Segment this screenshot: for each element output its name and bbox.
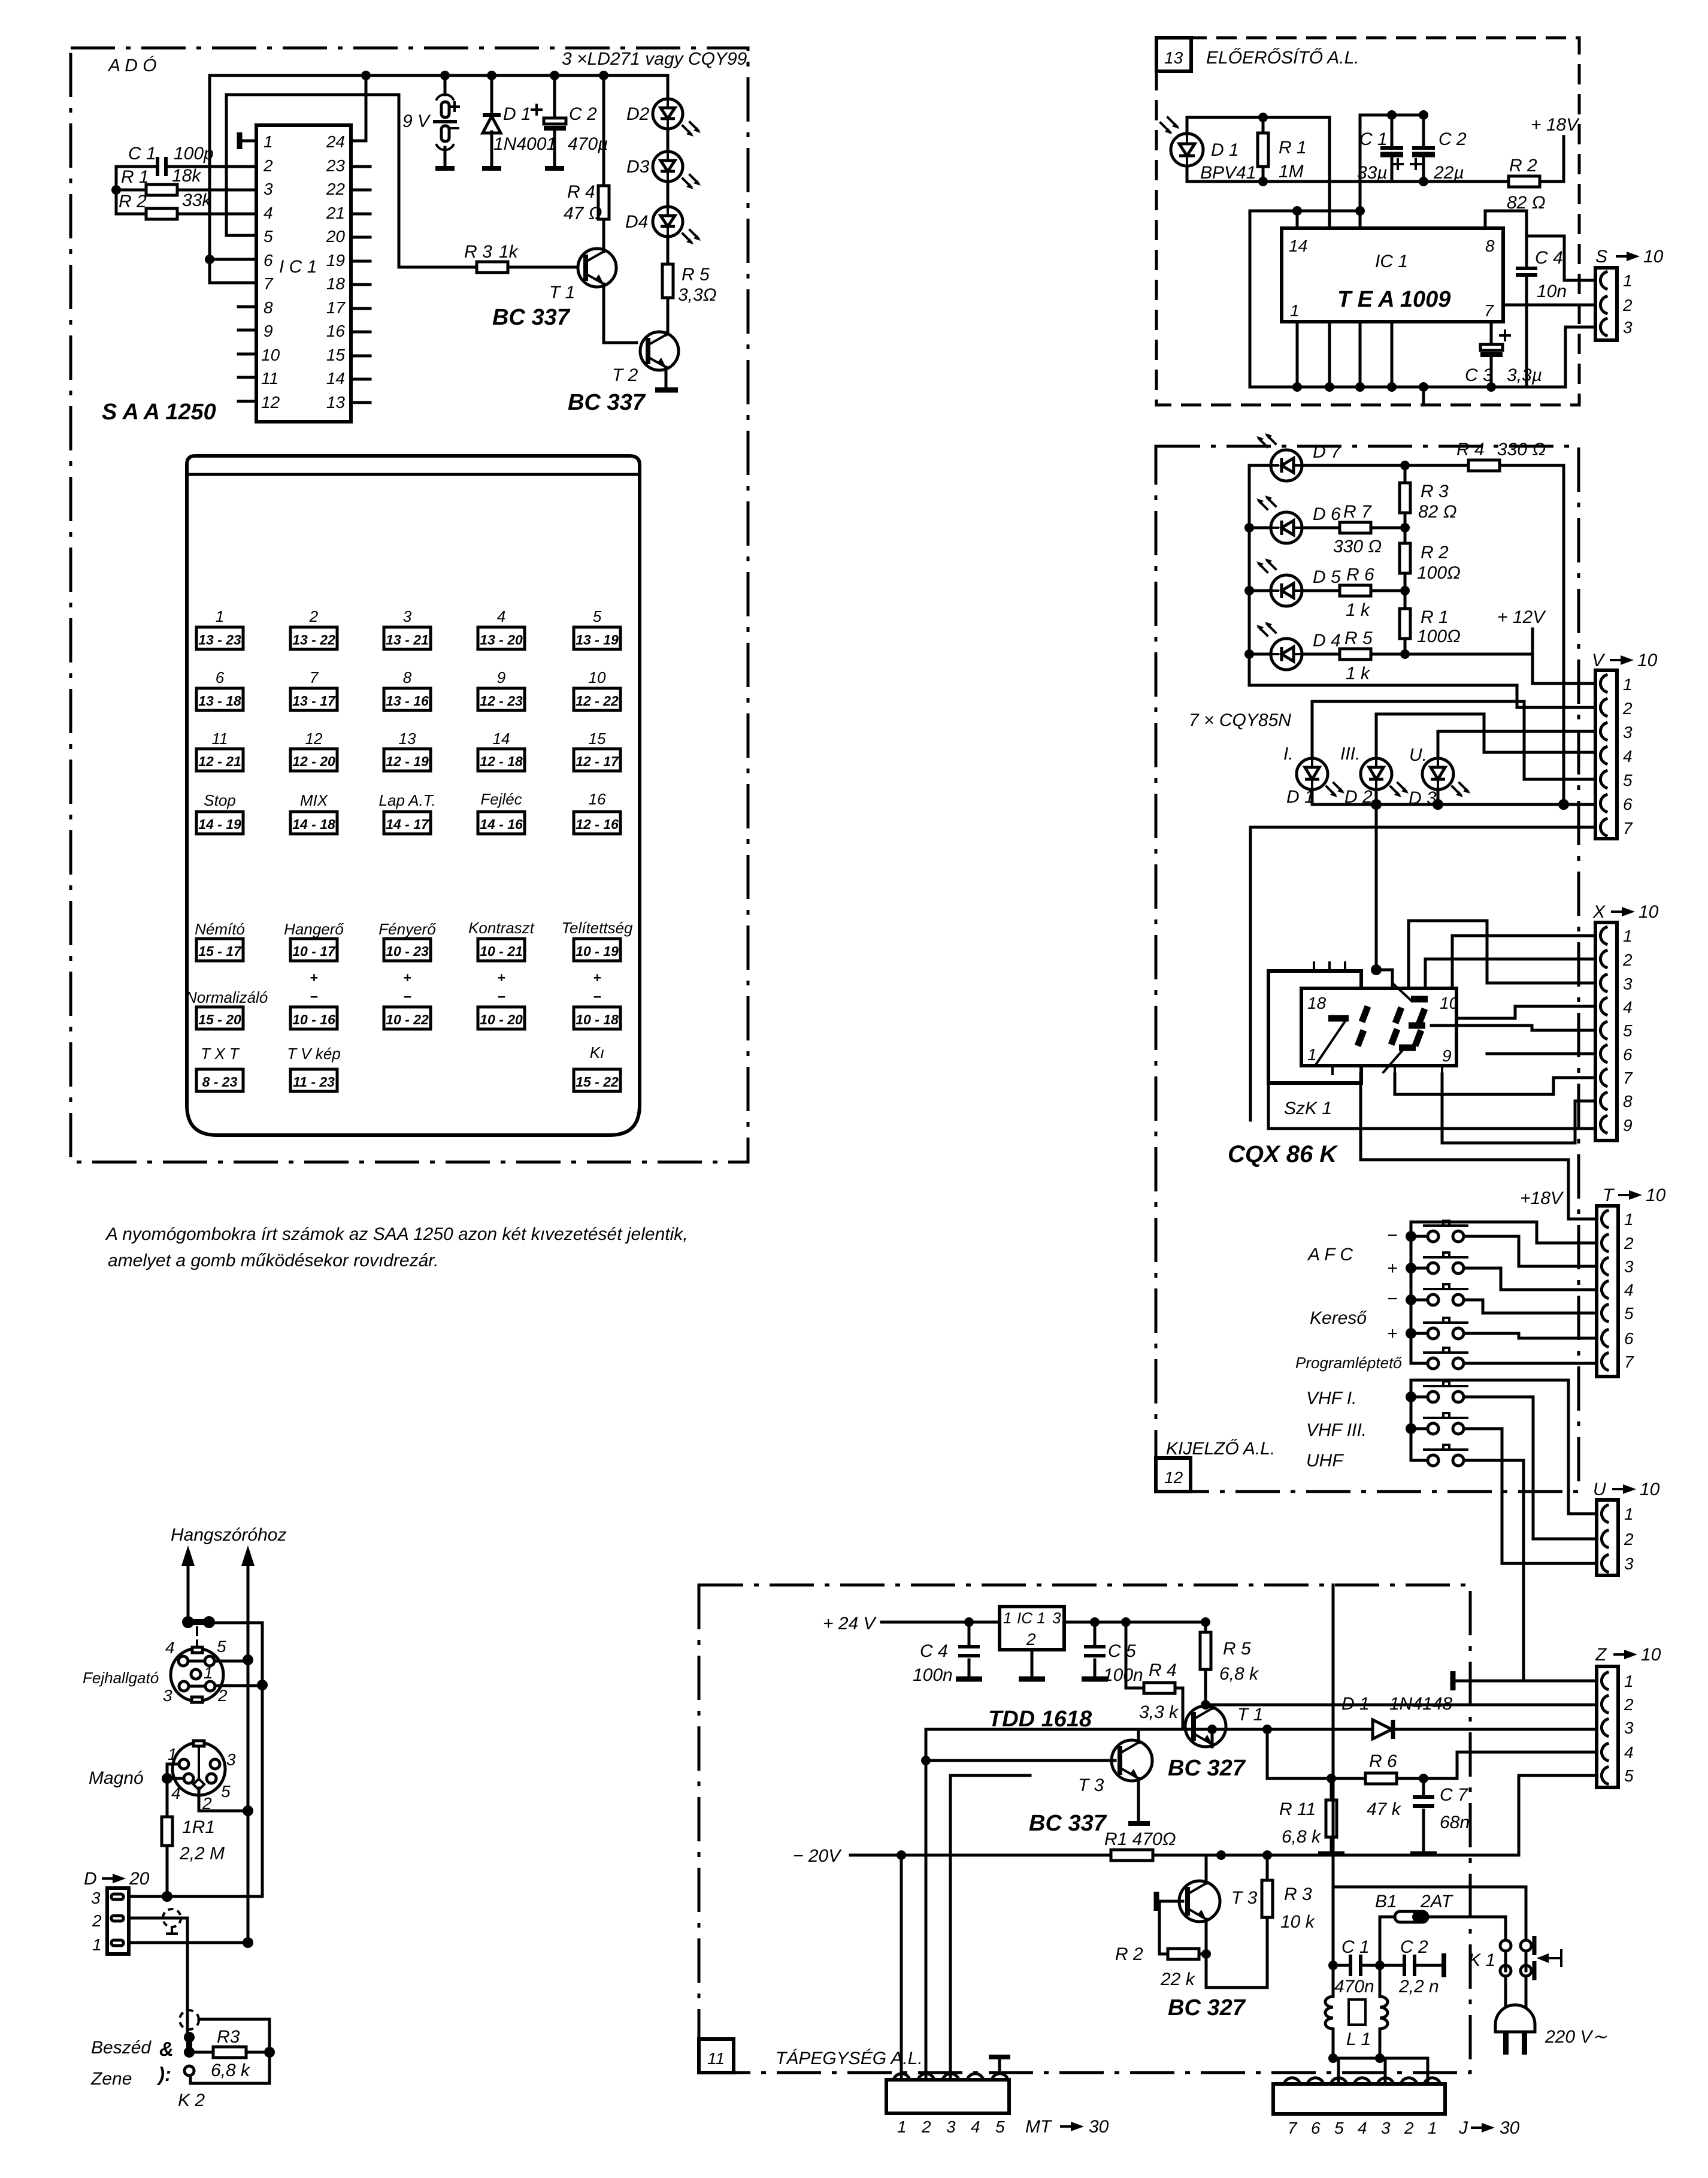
svg-text:5: 5 <box>995 2117 1005 2136</box>
resistor R3 6,8k <box>195 2051 269 2054</box>
buttons left rail 1 <box>1411 1222 1595 1363</box>
resistor R4 330ohm <box>1468 460 1500 471</box>
svg-text:5: 5 <box>264 227 273 246</box>
svg-text:12 - 19: 12 - 19 <box>386 754 429 769</box>
svg-text:14 - 19: 14 - 19 <box>198 816 241 832</box>
ground under T2 <box>655 388 678 393</box>
mains plug <box>1495 2005 1535 2032</box>
resistor R3 10k vertical <box>1262 1880 1273 1917</box>
svg-text:R 2: R 2 <box>1509 156 1537 176</box>
svg-text:10: 10 <box>1646 1185 1666 1205</box>
band LED D1 <box>1283 701 1595 807</box>
svg-text:23: 23 <box>326 156 346 175</box>
Z1 terminal bar <box>1453 1680 1597 1683</box>
svg-text:1k: 1k <box>499 242 519 262</box>
connector V-10 <box>1592 651 1658 839</box>
svg-text:I.: I. <box>1283 744 1294 764</box>
svg-text:17: 17 <box>326 298 346 317</box>
svg-text:4: 4 <box>171 1784 181 1802</box>
connector S-10 <box>1595 247 1664 340</box>
svg-text:12 - 18: 12 - 18 <box>480 754 523 769</box>
wire SzK1 to X1 <box>1452 936 1595 987</box>
svg-text:+: + <box>1387 1259 1398 1278</box>
svg-text:6,8 k: 6,8 k <box>1282 1827 1322 1847</box>
svg-text:100n: 100n <box>913 1665 953 1685</box>
svg-text:T 1: T 1 <box>549 283 575 302</box>
svg-text:8 - 23: 8 - 23 <box>202 1074 238 1090</box>
push button UHF <box>1411 1445 1595 1681</box>
connector U-10 <box>1593 1480 1660 1575</box>
svg-text:3: 3 <box>1624 1719 1634 1737</box>
svg-text:R 1: R 1 <box>1421 607 1449 627</box>
capacitor C2 2,2n <box>1380 1964 1444 1967</box>
connector X-10 <box>1592 902 1659 1141</box>
svg-text:+ 24 V: + 24 V <box>823 1614 877 1633</box>
svg-text:5: 5 <box>1334 2119 1344 2137</box>
svg-text:2: 2 <box>1624 1234 1634 1253</box>
keypad top inner line <box>187 473 640 476</box>
wire IC pin7 to S2 <box>1503 304 1595 307</box>
svg-text:A F C: A F C <box>1307 1245 1353 1265</box>
wire SzK1 to X2 <box>1425 959 1595 988</box>
svg-text:2: 2 <box>1026 1630 1036 1648</box>
diode D1 1N4001 <box>490 75 493 168</box>
svg-text:3: 3 <box>1052 1609 1061 1627</box>
wire D20 pin1 <box>129 1941 248 1944</box>
resistor R5 6,8k vertical <box>1200 1632 1211 1669</box>
block 12 number box <box>1156 1458 1191 1492</box>
svg-text:22µ: 22µ <box>1433 163 1464 183</box>
block 13 dashed border <box>1156 38 1579 405</box>
svg-text:1: 1 <box>92 1935 102 1954</box>
svg-text:U.: U. <box>1409 745 1427 765</box>
svg-text:D2: D2 <box>626 104 650 124</box>
svg-text:4: 4 <box>1624 1281 1634 1299</box>
transformer L1 <box>1333 1965 1380 1996</box>
svg-text:18: 18 <box>1307 994 1327 1012</box>
svg-text:R 4: R 4 <box>567 182 595 202</box>
svg-text:BC 337: BC 337 <box>1029 1811 1107 1836</box>
svg-text:3,3Ω: 3,3Ω <box>678 285 717 305</box>
svg-text:4: 4 <box>1624 1743 1634 1762</box>
svg-text:19: 19 <box>326 251 345 270</box>
svg-text:R 2: R 2 <box>1421 543 1449 562</box>
svg-text:2: 2 <box>1622 699 1633 718</box>
push button Kereso minus <box>1387 1284 1595 1313</box>
svg-text:3: 3 <box>403 607 412 625</box>
svg-text:D 5: D 5 <box>1313 567 1341 587</box>
wire from second bus down to R3 <box>399 95 477 267</box>
capacitor C2 470u electrolytic <box>553 75 556 168</box>
band LED D3 <box>1409 731 1595 808</box>
svg-text:D 1: D 1 <box>503 104 531 124</box>
svg-text:R 2: R 2 <box>1115 1944 1143 1964</box>
+18V vertical to V6 <box>1562 465 1565 804</box>
IC1 pin numbers left <box>261 132 280 412</box>
svg-text:VHF III.: VHF III. <box>1306 1420 1367 1440</box>
svg-text:5: 5 <box>217 1637 226 1656</box>
svg-text:12 - 21: 12 - 21 <box>198 754 241 769</box>
svg-text:11: 11 <box>212 730 228 748</box>
keypad labels row5 <box>195 919 633 938</box>
svg-text:470µ: 470µ <box>568 134 608 154</box>
svg-text:1: 1 <box>1624 1210 1634 1229</box>
svg-text:R 6: R 6 <box>1346 565 1374 585</box>
svg-text:16: 16 <box>589 790 606 808</box>
svg-text:2,2 M: 2,2 M <box>179 1844 225 1864</box>
T3 lower base terminal <box>1159 1901 1183 1954</box>
svg-text:R 7: R 7 <box>1343 502 1372 522</box>
svg-text:10: 10 <box>1643 247 1664 267</box>
svg-text:12 - 16: 12 - 16 <box>576 816 619 832</box>
svg-text:9: 9 <box>1442 1046 1452 1065</box>
svg-text:6: 6 <box>1311 2119 1321 2137</box>
connector T-10 <box>1597 1185 1666 1377</box>
svg-text:1: 1 <box>1428 2119 1437 2137</box>
svg-text:1R1: 1R1 <box>182 1817 215 1837</box>
wire SzK1 to X6 <box>1487 1052 1595 1055</box>
svg-text:K 2: K 2 <box>178 2091 205 2110</box>
wire SzK1 to X4 <box>1456 1006 1595 1018</box>
switch SzK1 outer wing <box>1268 971 1361 1083</box>
wire pin8 to C4 <box>1485 211 1527 268</box>
svg-text:12 - 17: 12 - 17 <box>576 754 619 769</box>
svg-text:R 4: R 4 <box>1456 440 1485 459</box>
svg-text:Kı: Kı <box>590 1043 605 1061</box>
svg-text:Kereső: Kereső <box>1310 1308 1367 1328</box>
wires K1 to plug <box>1506 1951 1526 1971</box>
svg-text:3: 3 <box>1623 975 1633 993</box>
LED D3 <box>626 129 701 189</box>
resistor R4 3,3k <box>1126 1622 1191 1726</box>
capacitor C7 68n <box>1422 1778 1425 1852</box>
svg-text:A D Ó: A D Ó <box>107 56 157 75</box>
svg-text:R 6: R 6 <box>1369 1752 1397 1771</box>
svg-text:14: 14 <box>493 730 510 748</box>
block 11 number box <box>699 2039 734 2073</box>
transistor T1 BC337 <box>578 249 616 287</box>
svg-text:10 - 20: 10 - 20 <box>480 1012 523 1027</box>
wire IC bottom pins to rail <box>1297 322 1392 387</box>
svg-text:5: 5 <box>1624 1304 1634 1323</box>
transistor T3 BC327 lower <box>1179 1881 1220 1922</box>
svg-text:2: 2 <box>1624 1530 1634 1548</box>
svg-text:10: 10 <box>1440 994 1459 1012</box>
svg-text:6,8 k: 6,8 k <box>1219 1664 1259 1684</box>
wire SzK1 to X8 <box>1442 1074 1595 1143</box>
svg-text:10 - 17: 10 - 17 <box>292 943 336 959</box>
svg-text:1: 1 <box>1624 1505 1634 1523</box>
svg-text:10 - 16: 10 - 16 <box>292 1012 335 1027</box>
svg-text:20: 20 <box>326 227 346 246</box>
svg-text:12: 12 <box>305 730 323 748</box>
capacitor C4 10n <box>1516 267 1537 270</box>
wire D1 top to R1 top and right <box>1187 117 1330 228</box>
svg-text:6: 6 <box>1623 1045 1633 1064</box>
LED D4 <box>625 181 701 244</box>
regulator IC1 TDD1618 <box>1000 1607 1064 1650</box>
svg-text:8: 8 <box>403 668 412 686</box>
svg-text:D 6: D 6 <box>1313 504 1341 524</box>
capacitor C1 470n <box>1328 1961 1338 1970</box>
node junction <box>111 185 121 195</box>
svg-text:100Ω: 100Ω <box>1417 627 1461 646</box>
svg-text:Telítettség: Telítettség <box>561 919 633 937</box>
svg-text:47 Ω: 47 Ω <box>564 204 602 223</box>
resistor R2 22k <box>1168 1949 1199 1959</box>
fuse B1 2AT <box>1380 1917 1506 1941</box>
svg-text:3: 3 <box>163 1686 172 1705</box>
resistor R1 18k <box>116 189 256 192</box>
svg-text:10: 10 <box>1641 1645 1661 1665</box>
svg-text:1N4148: 1N4148 <box>1389 1694 1452 1714</box>
svg-text:T E A 1009: T E A 1009 <box>1337 287 1450 312</box>
speaker wire right with arrow (long vertical) <box>247 1565 250 1943</box>
svg-text:Némító: Némító <box>195 920 245 938</box>
svg-text:4: 4 <box>1623 747 1633 766</box>
svg-text:14 - 16: 14 - 16 <box>480 816 523 832</box>
svg-text:2: 2 <box>1404 2119 1414 2137</box>
svg-text:Magnó: Magnó <box>89 1768 144 1788</box>
keypad boxes row2 <box>196 688 620 710</box>
svg-text:10 - 18: 10 - 18 <box>576 1012 619 1027</box>
svg-text:V: V <box>1592 651 1606 670</box>
svg-text:3: 3 <box>226 1750 236 1769</box>
LED D2 <box>626 75 701 137</box>
capacitor C1 100p <box>116 165 256 168</box>
svg-text:68n: 68n <box>1440 1813 1470 1832</box>
svg-text:1: 1 <box>1623 927 1633 945</box>
svg-text:13 - 18: 13 - 18 <box>198 693 241 709</box>
svg-text:C 3: C 3 <box>1465 365 1493 385</box>
svg-text:C 4: C 4 <box>920 1641 948 1661</box>
rail T1 collector to Z2 <box>1206 1704 1595 1707</box>
svg-text:7: 7 <box>1288 2119 1298 2137</box>
IC1 pin numbers right <box>326 132 346 412</box>
capacitor C5 100n <box>1094 1622 1097 1677</box>
svg-text:IC 1: IC 1 <box>1017 1609 1046 1627</box>
svg-text:6,8 k: 6,8 k <box>211 2061 251 2080</box>
push button VHF III <box>1411 1413 1595 1563</box>
capacitor C2 22u <box>1422 115 1425 181</box>
svg-text:BC 337: BC 337 <box>492 305 571 330</box>
svg-text:T 3: T 3 <box>1231 1888 1258 1908</box>
svg-text:10 - 23: 10 - 23 <box>386 943 429 959</box>
svg-text:220 V∼: 220 V∼ <box>1545 2027 1607 2047</box>
connector Magno DIN <box>168 1741 236 1813</box>
svg-text:+: + <box>593 970 601 985</box>
svg-text:5: 5 <box>593 607 602 625</box>
svg-text:KIJELZŐ A.L.: KIJELZŐ A.L. <box>1166 1439 1275 1459</box>
svg-text:330 Ω: 330 Ω <box>1333 537 1382 556</box>
wire pin4-pin5 to right vertical <box>188 1660 248 1663</box>
svg-text:12: 12 <box>261 393 280 412</box>
svg-text:14 - 17: 14 - 17 <box>386 816 429 832</box>
svg-text:15: 15 <box>589 730 606 748</box>
svg-text:1: 1 <box>1307 1045 1317 1064</box>
svg-text:Hangerő: Hangerő <box>284 920 344 938</box>
transformer bottom rail to J30 <box>1333 2058 1428 2084</box>
svg-text:100n: 100n <box>1103 1665 1143 1685</box>
svg-text:Normalizáló: Normalizáló <box>186 988 268 1006</box>
wire SzK1 to X5 <box>1431 1026 1595 1030</box>
resistor R6 47k <box>1267 1729 1595 1778</box>
svg-text:+18V: +18V <box>1520 1188 1564 1208</box>
push button Kereso plus <box>1387 1318 1595 1344</box>
svg-text:6: 6 <box>264 251 273 270</box>
svg-text:5: 5 <box>1623 771 1633 789</box>
svg-text:C 5: C 5 <box>1108 1641 1136 1661</box>
switch SzK1 body <box>1301 988 1456 1066</box>
svg-text:3: 3 <box>1623 318 1633 337</box>
svg-text:6: 6 <box>1623 795 1633 813</box>
svg-text:7: 7 <box>1484 301 1494 320</box>
band LED cathode rail to V6 <box>1312 789 1595 804</box>
svg-text:T: T <box>1603 1185 1615 1205</box>
svg-text:VHF I.: VHF I. <box>1306 1389 1356 1408</box>
svg-text:Fejhallgató: Fejhallgató <box>83 1669 159 1687</box>
K2 Beszed contact <box>184 2032 195 2043</box>
svg-text:1: 1 <box>1290 301 1300 320</box>
svg-text:13 - 20: 13 - 20 <box>480 632 523 648</box>
connector MT-30 <box>886 2080 1009 2113</box>
svg-text:3: 3 <box>1624 1257 1634 1276</box>
wire C4 node to S1 <box>1527 236 1595 280</box>
capacitor C4 100n <box>968 1622 971 1677</box>
svg-text:S: S <box>1595 247 1607 267</box>
svg-text:13: 13 <box>399 730 416 748</box>
svg-text:X: X <box>1592 902 1606 922</box>
svg-text:UHF: UHF <box>1306 1451 1344 1471</box>
svg-text:1N4001: 1N4001 <box>493 134 556 154</box>
wire D2 cathode down to SzK1 <box>1375 804 1378 970</box>
svg-text:+ 18V: + 18V <box>1531 115 1580 135</box>
svg-text:ELŐERŐSÍTŐ A.L.: ELŐERŐSÍTŐ A.L. <box>1206 48 1359 68</box>
T1 emitter rail to D1 and left <box>926 1729 1267 1747</box>
svg-text:Z: Z <box>1595 1645 1607 1665</box>
svg-text:7: 7 <box>1624 1353 1634 1371</box>
svg-text:C 1: C 1 <box>1359 129 1388 149</box>
svg-text:2: 2 <box>309 607 319 625</box>
resistor R3 82ohm vertical <box>1400 483 1410 513</box>
LED cathode rail to V2 <box>1249 685 1595 707</box>
keypad labels row4 <box>204 790 606 809</box>
K2 Zene contact <box>184 2066 194 2076</box>
svg-text:C 1: C 1 <box>128 144 156 164</box>
wire Zene loop <box>190 2052 269 2083</box>
svg-text:R 1: R 1 <box>1279 138 1307 158</box>
svg-text:J: J <box>1458 2118 1468 2138</box>
svg-text:Lap A.T.: Lap A.T. <box>379 791 436 809</box>
svg-text:2: 2 <box>263 156 273 175</box>
svg-text:13 - 17: 13 - 17 <box>292 693 336 709</box>
buttons left rail 2 <box>1411 1380 1595 1514</box>
svg-text:15 - 22: 15 - 22 <box>576 1074 619 1090</box>
svg-text:16: 16 <box>326 322 346 340</box>
svg-text:100Ω: 100Ω <box>1417 563 1461 583</box>
svg-text:C 2: C 2 <box>1439 129 1467 149</box>
svg-text:12 - 22: 12 - 22 <box>576 693 619 709</box>
svg-text:2: 2 <box>1624 1695 1634 1714</box>
svg-text:3: 3 <box>1623 723 1633 742</box>
battery 9V <box>444 75 447 95</box>
svg-text:4: 4 <box>1623 998 1633 1017</box>
svg-text:BC 327: BC 327 <box>1168 1756 1246 1781</box>
svg-text:20: 20 <box>129 1869 150 1889</box>
speaker wire left with arrow <box>187 1565 190 1622</box>
svg-text:R 11: R 11 <box>1279 1799 1316 1819</box>
svg-text:4: 4 <box>264 204 273 222</box>
svg-text:10n: 10n <box>1537 282 1567 301</box>
wire mid bus to IC pins <box>1250 211 1360 228</box>
svg-text:12 - 23: 12 - 23 <box>480 693 523 709</box>
svg-text:4: 4 <box>971 2117 980 2136</box>
block 13 number box <box>1156 38 1191 71</box>
svg-text:1: 1 <box>204 1663 213 1682</box>
capacitor C1 33u <box>1391 115 1394 181</box>
svg-text:T 2: T 2 <box>612 365 638 385</box>
svg-text:21: 21 <box>326 204 345 222</box>
ADO block border <box>71 48 748 1162</box>
keypad boxes row1 <box>196 627 620 649</box>
plus signs row <box>310 970 601 985</box>
svg-text:10 - 21: 10 - 21 <box>480 943 523 959</box>
wire D20 pin2 to switch <box>129 1918 187 2034</box>
svg-text:10: 10 <box>589 668 606 686</box>
push button AFC plus <box>1387 1253 1595 1290</box>
svg-text:10: 10 <box>1637 651 1658 670</box>
svg-text:−: − <box>1387 1226 1398 1245</box>
svg-text:1 k: 1 k <box>1346 600 1371 620</box>
svg-text:100p: 100p <box>174 144 214 164</box>
vertical to MT3 <box>950 1775 1030 2080</box>
svg-text:5: 5 <box>1624 1766 1634 1785</box>
keypad outline <box>187 456 640 1135</box>
transistor T2 BC337 <box>640 332 679 370</box>
svg-text:III.: III. <box>1340 744 1360 764</box>
svg-text:C 2: C 2 <box>569 104 597 124</box>
wire D4 row to V1 <box>1405 654 1595 683</box>
wire V7 long L <box>1250 827 1595 1120</box>
wire D6 row and resistor R7 330 <box>1249 527 1405 530</box>
svg-text:13 - 21: 13 - 21 <box>386 632 429 648</box>
svg-text:82 Ω: 82 Ω <box>1418 502 1457 522</box>
svg-text:Zene: Zene <box>90 2069 132 2089</box>
wire C1 C2 top bus <box>1360 114 1424 117</box>
block 11 border <box>699 1585 1470 2073</box>
capacitor C3 3,3u electrolytic <box>1490 322 1493 387</box>
keypad labels row7 <box>201 1043 604 1063</box>
LED D4 <box>1256 622 1341 670</box>
keypad boxes row3 <box>196 749 620 771</box>
svg-text:2,2 n: 2,2 n <box>1398 1977 1439 1996</box>
svg-text:13 - 16: 13 - 16 <box>386 693 429 709</box>
svg-text:13 - 23: 13 - 23 <box>198 632 241 648</box>
resistor R2 100ohm vertical <box>1400 543 1410 573</box>
K2 throw wire to R3 right node <box>199 2019 269 2052</box>
svg-text:4: 4 <box>165 1638 175 1657</box>
SzK1 contacts <box>1328 1015 1349 1022</box>
svg-text:D 1: D 1 <box>1341 1694 1370 1714</box>
svg-text:1 k: 1 k <box>1346 664 1371 683</box>
svg-text:14 - 18: 14 - 18 <box>292 816 335 832</box>
LED D7 <box>1256 433 1341 481</box>
keypad labels row3 <box>212 730 606 748</box>
svg-text:R 5: R 5 <box>1223 1639 1251 1659</box>
push button VHF I <box>1411 1381 1595 1539</box>
svg-text:15 - 17: 15 - 17 <box>198 943 242 959</box>
svg-text:D3: D3 <box>626 157 650 177</box>
